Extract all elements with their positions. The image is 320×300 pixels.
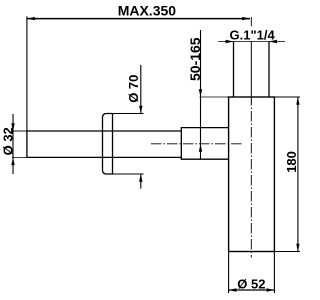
node Ø32 bottom extension line xyxy=(12,156,27,158)
wire: horizontal tube bottom xyxy=(26,156,181,158)
node Ø70 top extension line xyxy=(113,113,144,115)
node arrow-left-G xyxy=(269,40,277,43)
node arrow-down-50165 xyxy=(199,89,202,97)
node flange escutcheon xyxy=(103,114,113,175)
svg-text:G.1"1/4: G.1"1/4 xyxy=(230,27,276,42)
svg-text:Ø 32: Ø 32 xyxy=(0,127,15,155)
node arrow-up-50165 xyxy=(199,144,202,152)
node arrow-right-O52 xyxy=(267,288,275,291)
wire: horizontal tube top xyxy=(26,130,181,132)
wire: G dimension line xyxy=(218,41,285,43)
node Ø52 left extension line xyxy=(228,252,230,294)
node arrow-up-O70 xyxy=(139,174,142,182)
wire: 50-165 dimension line xyxy=(200,30,202,159)
wire: Ø70 dimension line lower xyxy=(140,174,142,189)
node 180 bottom extension line xyxy=(274,251,300,253)
svg-text:180: 180 xyxy=(284,151,299,173)
node arrow-left-O52 xyxy=(229,288,237,291)
node arrow-up-180 xyxy=(296,97,299,105)
node arrow-down-180 xyxy=(296,244,299,252)
svg-text:MAX.350: MAX.350 xyxy=(118,2,177,18)
node Ø32 top extension line xyxy=(12,130,27,132)
node body centerline vertical dash-dot lower xyxy=(250,106,252,258)
node arrow-left-MAX350 xyxy=(27,17,35,20)
node body centerline vertical solid upper xyxy=(250,42,252,106)
node Ø52 right extension line xyxy=(273,252,275,294)
wire: Ø52 dimension line xyxy=(229,289,275,291)
node 180 top extension line xyxy=(274,96,300,98)
node Ø70 bottom extension line xyxy=(113,173,144,175)
node arrow-up-O32 xyxy=(11,157,14,165)
node body top left extension line xyxy=(200,96,229,98)
node body centerline vertical top segment xyxy=(250,17,252,26)
svg-text:Ø 52: Ø 52 xyxy=(237,276,265,291)
wire: Ø70 dimension line upper xyxy=(140,65,142,114)
wire: inlet pipe left wall xyxy=(233,42,235,98)
node body cylinder xyxy=(229,97,275,252)
svg-text:Ø 70: Ø 70 xyxy=(126,75,141,103)
node pipe centerline horizontal xyxy=(151,143,244,145)
wire: left extension line from wall xyxy=(26,16,28,131)
wire: 180 dimension line xyxy=(297,97,299,252)
wire: Ø32 dimension line xyxy=(12,114,14,174)
node arrow-down-O70 xyxy=(139,106,142,114)
svg-text:50-165: 50-165 xyxy=(187,37,203,81)
wire: inlet pipe right wall xyxy=(268,42,270,98)
node arrow-right-MAX350 xyxy=(242,17,250,20)
node arrow-down-O32 xyxy=(11,123,14,131)
node socket nut section xyxy=(181,127,228,129)
node arrow-right-G xyxy=(226,40,234,43)
wire: MAX.350 dimension line xyxy=(27,18,250,20)
wire: horizontal tube left end cap xyxy=(26,130,28,158)
